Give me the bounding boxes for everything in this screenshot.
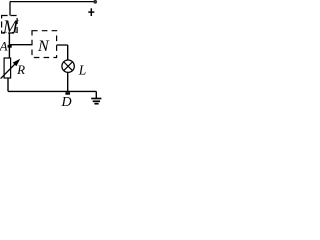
rheostat R arrow — [1, 59, 21, 79]
wire right vertical to ground — [95, 91, 97, 98]
node A label — [0, 38, 8, 53]
wire left vertical from top wire into box M — [9, 2, 11, 16]
node D junction dot — [65, 92, 70, 95]
component M dashed box — [2, 16, 18, 34]
svg-text:A: A — [0, 38, 8, 53]
rheostat R body — [4, 58, 11, 78]
svg-text:R: R — [16, 62, 25, 77]
wire horizontal from box N right side — [57, 44, 68, 46]
svg-text:M: M — [2, 17, 19, 37]
wire vertical from rheostat R to bottom wire — [7, 78, 9, 91]
wire bottom horizontal — [8, 90, 96, 92]
svg-text:L: L — [78, 63, 87, 78]
rheostat R label — [16, 62, 25, 77]
node D label — [61, 95, 72, 110]
wire vertical from lamp L to bottom wire — [67, 72, 69, 91]
wire horizontal from node A to box N — [9, 44, 32, 46]
+ polarity label — [88, 11, 94, 13]
ground — [91, 99, 101, 104]
lamp L label — [78, 63, 87, 78]
+ terminal dot — [93, 0, 97, 4]
svg-text:N: N — [37, 38, 50, 55]
node A junction dot — [8, 45, 12, 48]
lamp L circle — [62, 60, 74, 72]
component N dashed box — [32, 31, 57, 58]
component M label — [2, 17, 19, 37]
wire top horizontal from left corner to + terminal — [10, 1, 95, 3]
wire vertical down to lamp L — [67, 45, 69, 60]
component N label — [37, 38, 50, 55]
wire vertical from box M through node A to rheostat R — [8, 33, 10, 58]
svg-text:D: D — [61, 95, 72, 106]
lamp L cross — [63, 62, 72, 71]
